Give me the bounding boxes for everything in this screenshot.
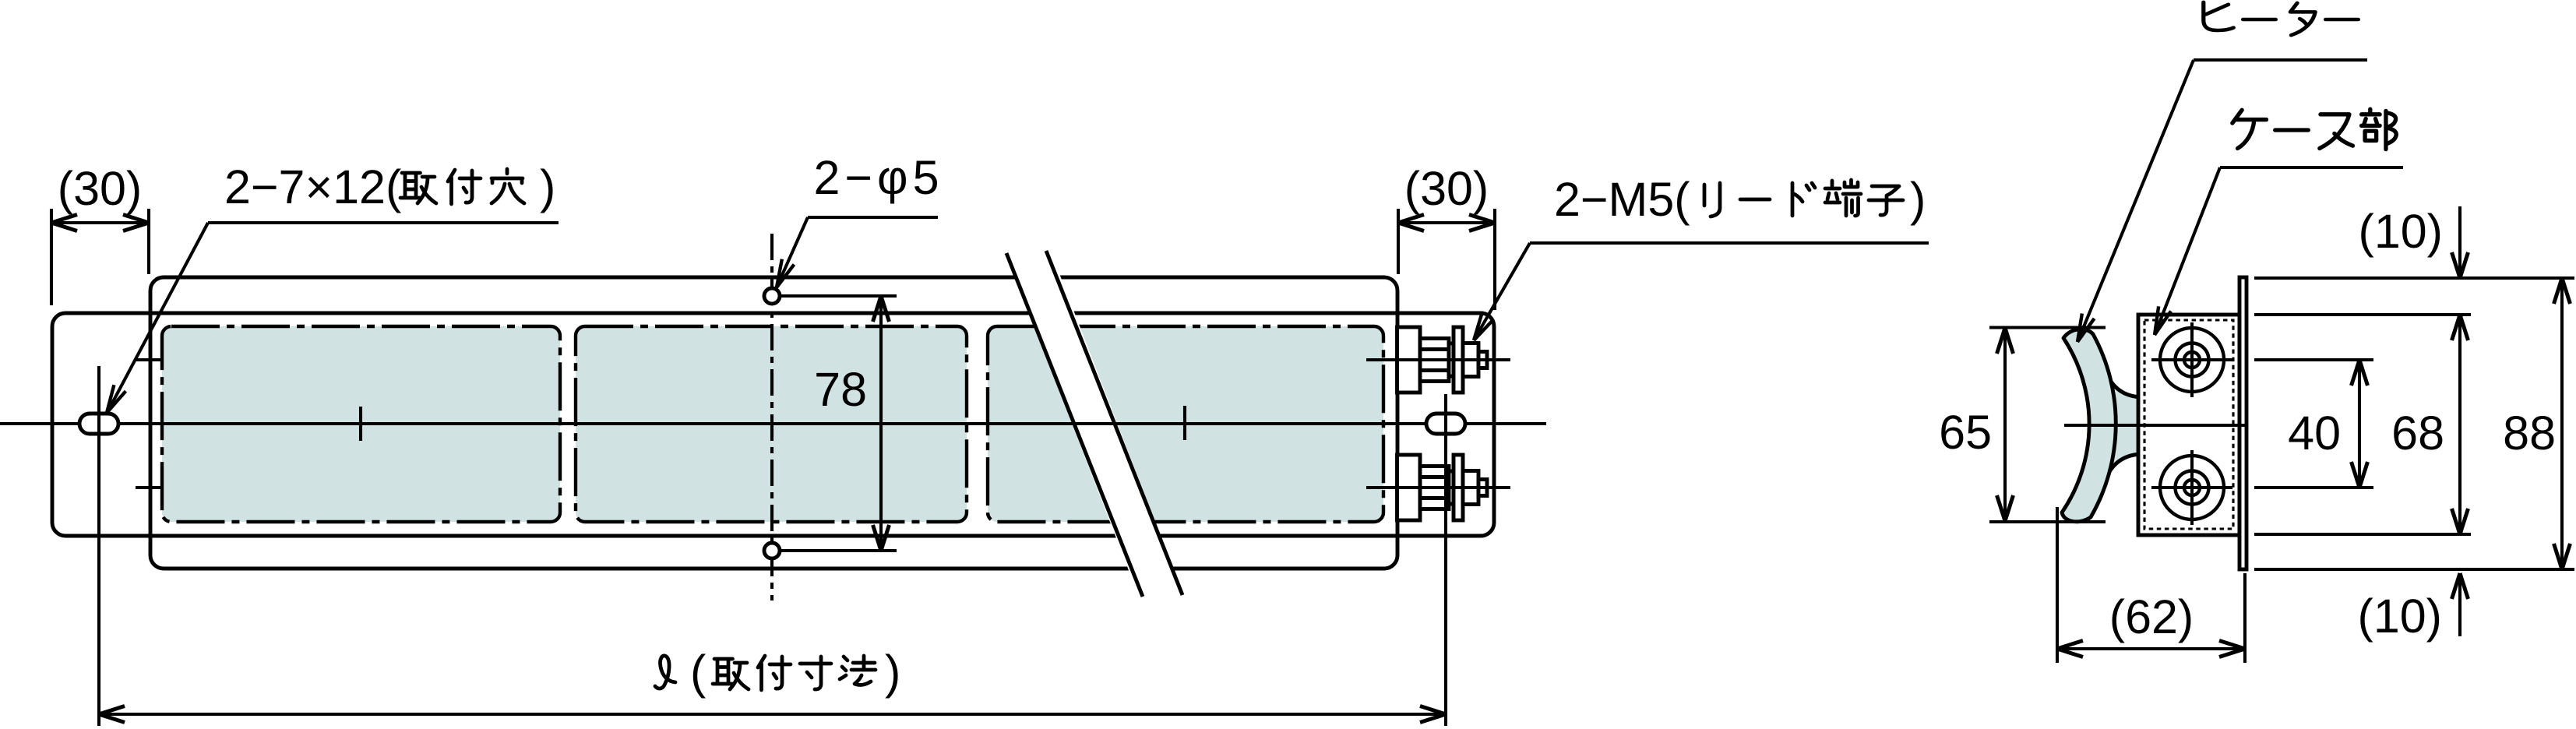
svg-text:2−φ5: 2−φ5 [813, 151, 943, 204]
svg-text:2−7×12(: 2−7×12( [224, 160, 401, 213]
svg-text:(10): (10) [2358, 590, 2442, 643]
svg-text:(62): (62) [2109, 590, 2194, 643]
svg-text:): ) [1910, 173, 1926, 226]
svg-text:): ) [885, 646, 900, 699]
svg-text:65: 65 [1939, 406, 1992, 459]
svg-text:2−M5(: 2−M5( [1554, 173, 1690, 226]
svg-text:40: 40 [2288, 407, 2341, 460]
svg-text:(10): (10) [2359, 205, 2443, 258]
svg-text:(: ( [690, 646, 706, 699]
svg-text:(30): (30) [1404, 162, 1489, 215]
svg-text:88: 88 [2503, 407, 2556, 460]
svg-text:68: 68 [2391, 407, 2444, 460]
svg-text:): ) [540, 160, 555, 213]
svg-text:(30): (30) [58, 162, 142, 215]
svg-text:78: 78 [814, 363, 867, 416]
